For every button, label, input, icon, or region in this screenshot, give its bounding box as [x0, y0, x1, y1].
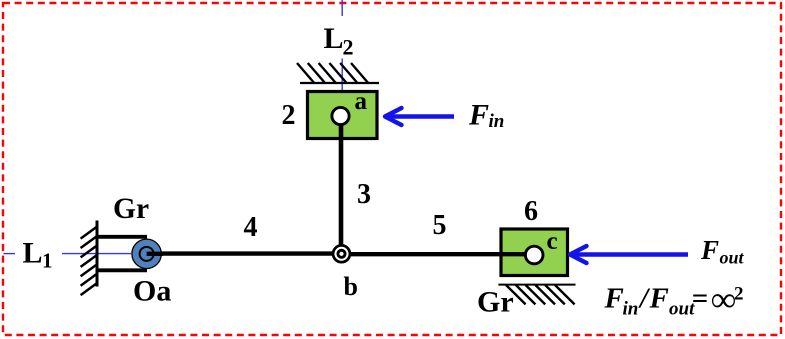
svg-text:in: in — [623, 299, 639, 320]
label F_in — [468, 99, 504, 133]
svg-text:F: F — [649, 283, 669, 315]
svg-text:4: 4 — [244, 212, 258, 243]
svg-text:a: a — [355, 88, 368, 115]
label Gr (right ground) — [477, 286, 514, 319]
pivot bracket — [96, 237, 147, 270]
svg-text:=: = — [692, 283, 709, 315]
svg-text:5: 5 — [433, 210, 447, 241]
pin a — [332, 107, 349, 124]
link 3 — [339, 118, 344, 250]
slider block 2 — [308, 92, 378, 139]
label 2 — [282, 100, 296, 131]
svg-text:Gr: Gr — [113, 193, 149, 225]
svg-text:3: 3 — [357, 179, 371, 210]
label Gr (left ground) — [113, 193, 149, 225]
pin c — [525, 246, 543, 264]
bottom ground hatching — [506, 285, 575, 304]
svg-text:6: 6 — [524, 196, 538, 227]
svg-text:Gr: Gr — [477, 286, 514, 319]
svg-text:F: F — [468, 99, 489, 132]
bottom ground line — [498, 284, 575, 286]
label 4 — [244, 212, 258, 243]
label c — [547, 228, 558, 255]
force arrow F_out — [570, 246, 688, 263]
label Oa — [133, 275, 171, 308]
link 5 — [342, 252, 535, 256]
svg-text:2: 2 — [343, 35, 354, 60]
svg-text:1: 1 — [42, 249, 53, 273]
label 5 — [433, 210, 447, 241]
svg-text:Oa: Oa — [133, 275, 171, 308]
force arrow F_in — [385, 108, 454, 125]
svg-text:b: b — [344, 272, 358, 301]
label L2 — [324, 22, 354, 60]
centerline L2 (vertical blue dash-dot) — [341, 0, 343, 90]
label F_out — [700, 235, 745, 268]
label a — [355, 88, 368, 115]
svg-text:in: in — [489, 111, 505, 132]
svg-text:L: L — [23, 237, 43, 270]
label 6 — [524, 196, 538, 227]
link 4 — [146, 251, 342, 255]
formula F_in / F_out = infinity squared — [604, 280, 744, 320]
svg-text:F: F — [700, 235, 719, 265]
svg-text:F: F — [604, 283, 624, 315]
svg-text:L: L — [324, 22, 344, 55]
top ground hatching — [297, 63, 379, 83]
svg-text:∞: ∞ — [711, 280, 736, 319]
link 4 stub over pivot — [147, 252, 163, 256]
slider block 6 — [501, 229, 568, 276]
label L1 — [23, 237, 53, 273]
svg-text:out: out — [720, 248, 745, 268]
left wall hatching — [81, 227, 97, 295]
svg-text:2: 2 — [734, 284, 744, 305]
svg-text:2: 2 — [282, 100, 296, 131]
pivot Oa (blue journal) — [132, 239, 161, 268]
label 3 — [357, 179, 371, 210]
left wall line — [96, 221, 99, 287]
label b — [344, 272, 358, 301]
centerline L1 (horizontal blue dash-dot) — [4, 253, 132, 255]
node b (revolute joint) — [333, 245, 350, 262]
svg-text:c: c — [547, 228, 558, 255]
